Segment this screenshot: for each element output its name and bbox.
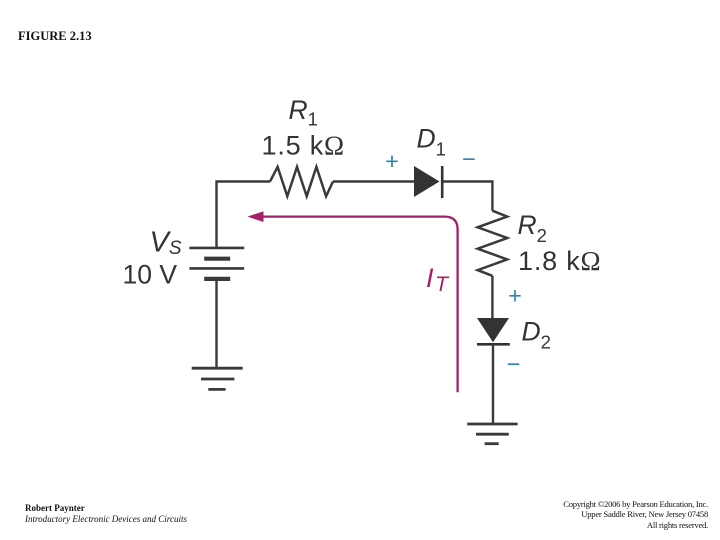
svg-text:1.8 kΩ: 1.8 kΩ (518, 246, 601, 276)
author line 1 (25, 503, 85, 513)
battery VS plate 2 (short thick) (204, 257, 230, 261)
svg-text:R2: R2 (518, 210, 547, 246)
current path IT (magenta) (262, 217, 458, 393)
diode D1 cathode bar (441, 166, 444, 198)
svg-text:−: − (462, 146, 476, 172)
svg-text:10 V: 10 V (123, 259, 178, 289)
svg-text:−: − (507, 351, 521, 377)
wire: left vertical + top horizontal to R1 (217, 182, 271, 249)
svg-text:D1: D1 (417, 123, 446, 159)
copyright block (563, 499, 708, 531)
diode D2 cathode bar (477, 343, 510, 346)
ground (left) bar 3 (208, 388, 225, 391)
svg-text:1.5 kΩ: 1.5 kΩ (262, 131, 345, 161)
resistor R2 zigzag (478, 211, 508, 276)
ground (right) bar 3 (485, 442, 499, 445)
svg-text:+: + (508, 282, 522, 308)
ground (left) bar 2 (201, 378, 234, 381)
wire: battery to left ground (215, 281, 217, 368)
diode D1 anode triangle (414, 166, 440, 197)
svg-text:D2: D2 (522, 316, 551, 352)
author line 2 (25, 514, 187, 524)
current path arrowhead (248, 211, 264, 222)
ground (left) bar 1 (192, 367, 243, 370)
wire: R1 to D1 (333, 180, 415, 182)
figure title (18, 29, 92, 44)
wire: D1 to top-right corner down to R2 (442, 182, 492, 211)
battery VS plate 4 (short thick) (204, 277, 230, 281)
resistor R1 zigzag (270, 167, 333, 196)
battery VS plate 1 (long) (189, 247, 244, 250)
svg-text:+: + (385, 148, 399, 174)
battery VS plate 3 (long) (189, 267, 244, 270)
ground (right) bar 2 (476, 433, 509, 436)
wire: D2 to right ground (492, 344, 494, 424)
ground (right) bar 1 (467, 423, 517, 426)
wire: R2 to D2 (491, 276, 493, 318)
svg-text:VS: VS (150, 227, 182, 260)
svg-text:R1: R1 (289, 95, 318, 130)
svg-text:IT: IT (426, 263, 450, 296)
diode D2 anode triangle (477, 318, 509, 342)
